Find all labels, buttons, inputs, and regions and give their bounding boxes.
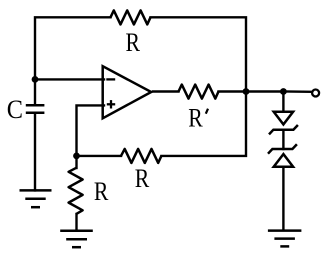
- wire: + input vertical and horizontal into op-amp: [77, 105, 105, 155]
- ground (below vertical resistor R3): [60, 231, 93, 247]
- wire: zener D2 anode down to ground: [282, 167, 284, 230]
- pin label - (inverting input): [106, 78, 115, 80]
- svg-text:C: C: [7, 95, 23, 124]
- wire: node D down to zener D1: [282, 92, 284, 112]
- resistor R2 (bottom feedback R): [121, 149, 161, 163]
- svg-text:R: R: [126, 28, 141, 57]
- wire: capacitor bottom lead: [34, 113, 36, 191]
- wire: - input wire from node B to op-amp: [35, 78, 104, 80]
- op-amp U1: [103, 66, 152, 118]
- wire: R' to output node: [219, 90, 247, 92]
- value label prime mark of R': [206, 109, 208, 114]
- zener diode D1 (cathode down): [269, 112, 298, 135]
- capacitor C1: [26, 105, 45, 113]
- node B (junction at - input / capacitor / left rail): [32, 76, 39, 83]
- wire: top wire right of R, down right rail to bottom-right corner, left to bottom R: [151, 17, 247, 156]
- wire: between zener cathodes: [282, 130, 284, 149]
- resistor R': [179, 85, 219, 99]
- wire: node D to output terminal: [283, 90, 311, 93]
- ground (below capacitor C1): [20, 190, 52, 207]
- output terminal (open circle): [312, 90, 319, 97]
- svg-text:R: R: [94, 177, 109, 206]
- svg-text:R: R: [188, 103, 203, 132]
- svg-text:R: R: [135, 164, 150, 193]
- node D (junction at zener branch): [280, 88, 287, 95]
- ground (below zener pair): [268, 231, 302, 247]
- wire: output node to zener branch node: [246, 90, 283, 92]
- pin label + (non-inverting input): [107, 103, 115, 105]
- zener diode D2 (cathode up): [268, 144, 297, 166]
- resistor R3 (vertical R to ground): [69, 156, 83, 229]
- resistor R1 (top feedback R): [111, 10, 151, 24]
- node C (junction of R', right rail, output line): [243, 88, 250, 95]
- node A (junction at + input / R / bottom feedback): [73, 153, 80, 160]
- wire: op-amp output to R': [153, 90, 179, 92]
- wire: left vertical rail from capacitor up to top-left corner, then top wire to R: [35, 17, 111, 105]
- wire: bottom feedback wire from R2 to plus-node: [77, 155, 122, 157]
